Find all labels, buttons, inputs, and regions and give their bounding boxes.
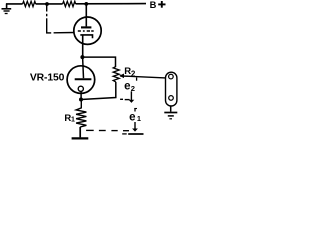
- resistor R1: [76, 100, 86, 127]
- wire (cathode lead): [82, 35, 84, 57]
- triode V1 plate bar: [81, 26, 91, 28]
- resistor R-B (top right series): [63, 1, 76, 6]
- node junction J1: [45, 2, 49, 6]
- wire (R1 bottom lead): [79, 127, 81, 137]
- wire (plate lead): [85, 4, 87, 26]
- label e1: [129, 112, 141, 124]
- svg-text:1: 1: [137, 114, 141, 123]
- node e2 tick: [136, 78, 138, 81]
- wire (R-B to B+): [76, 3, 146, 5]
- R2 wiper arrowhead: [119, 74, 124, 79]
- label R1: [64, 113, 75, 124]
- label B+: [150, 0, 157, 10]
- svg-text:2: 2: [131, 70, 136, 79]
- svg-text:1: 1: [71, 116, 75, 123]
- wire (R-A to junction): [36, 3, 63, 5]
- svg-text:e: e: [124, 81, 130, 93]
- node junction J4 (VR cathode node): [79, 98, 83, 102]
- node junction J3 (cathode node): [80, 55, 84, 59]
- VR-150 anode bar: [75, 78, 92, 80]
- wire (bottom dashed reference line): [86, 129, 129, 131]
- wire (dash left of e1 bar): [122, 133, 127, 135]
- label R2: [124, 66, 136, 78]
- wire (cathode rail to R2): [82, 57, 115, 67]
- potentiometer R2: [113, 67, 119, 82]
- ground (top-left): [2, 4, 12, 14]
- R1 terminal bar: [72, 137, 89, 139]
- ground (under jack): [164, 113, 177, 119]
- output jack top terminal: [169, 74, 174, 79]
- wire (dashes right of R2 bottom): [120, 98, 130, 100]
- wire (VR cathode lead): [80, 91, 82, 99]
- node e1 tick: [134, 108, 136, 111]
- resistor R-A (top left series): [23, 1, 36, 6]
- VR-150 tube envelope: [67, 66, 95, 94]
- wire (ground to R-A): [6, 3, 23, 5]
- e1 arrow: [134, 122, 136, 129]
- VR-150 cathode circle: [78, 86, 83, 91]
- svg-text:e: e: [129, 112, 135, 124]
- output jack body: [166, 72, 177, 106]
- triode V1 envelope: [74, 17, 101, 44]
- wire (grid drop from J1): [46, 6, 74, 34]
- wire (R2 wiper to jack): [120, 76, 165, 78]
- output jack bottom terminal: [169, 96, 174, 101]
- triode V1 cathode: [80, 35, 92, 38]
- wire (R2 bottom lead): [81, 82, 116, 100]
- svg-text:B: B: [150, 0, 157, 10]
- node junction J2 (plate tap): [84, 2, 88, 6]
- e2 arrow: [130, 91, 132, 100]
- triode V1 grid (dashed): [78, 30, 94, 32]
- wire (VR anode lead): [82, 57, 85, 78]
- wire (jack ground lead): [170, 106, 172, 112]
- label e2: [124, 81, 135, 93]
- e1 reference bar: [128, 133, 143, 135]
- svg-text:VR-150: VR-150: [30, 73, 65, 84]
